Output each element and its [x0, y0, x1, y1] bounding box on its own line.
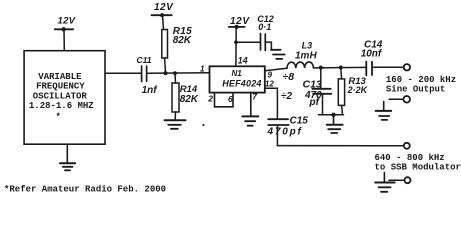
svg-text:12: 12 [265, 79, 274, 88]
wire C11 to pin 1 [148, 72, 210, 75]
svg-text:N1: N1 [232, 69, 243, 78]
capacitor C11 1nf [137, 55, 159, 96]
svg-text:to SSB Modulator: to SSB Modulator [375, 163, 461, 173]
svg-text:C15: C15 [290, 116, 309, 127]
svg-text:82K: 82K [180, 94, 199, 105]
ground (C13/R13) [327, 115, 343, 133]
ground (modulator output) [375, 173, 395, 192]
node output terminal (sine) [404, 64, 410, 70]
wire pin 7 to ground [250, 93, 252, 116]
svg-text:0·1: 0·1 [258, 22, 271, 32]
wire C13/R13 common [319, 114, 344, 116]
capacitor C15 470pf [267, 116, 309, 146]
VFO box U (variable frequency oscillator) [24, 51, 105, 145]
resistor R14 82K [172, 73, 199, 120]
wire 12V to VFO box [63, 29, 65, 50]
svg-text:L3: L3 [302, 41, 313, 51]
svg-text:12V: 12V [58, 15, 76, 26]
svg-text:160 - 200 kHz: 160 - 200 kHz [386, 75, 456, 85]
node C12 junction [234, 40, 238, 44]
svg-text:14: 14 [238, 56, 248, 66]
svg-text:470pf: 470pf [267, 127, 303, 138]
node ground terminal (modulator output) [389, 177, 411, 183]
svg-text:1nf: 1nf [142, 85, 159, 96]
resistor R15 82K [162, 15, 192, 73]
wire C15 to modulator output [277, 145, 403, 147]
svg-text:1.28-1.6 MHZ: 1.28-1.6 MHZ [29, 101, 94, 111]
svg-text:C11: C11 [137, 55, 152, 65]
node output terminal (modulator) [404, 143, 410, 149]
svg-text:2: 2 [207, 94, 213, 104]
stray mark [202, 124, 204, 126]
svg-text:12V: 12V [230, 16, 250, 27]
power terminal 12V (VFO supply) [55, 15, 76, 31]
ground (sine output) [376, 102, 392, 120]
svg-text:1mH: 1mH [295, 51, 317, 62]
svg-text:OSCILLATOR: OSCILLATOR [33, 91, 88, 101]
svg-text:HEF4024: HEF4024 [222, 79, 261, 89]
svg-text:*: * [56, 112, 61, 122]
svg-text:FREQUENCY: FREQUENCY [36, 82, 85, 92]
svg-text:Sine Output: Sine Output [386, 85, 445, 95]
svg-text:C13: C13 [303, 79, 322, 91]
svg-text:÷8: ÷8 [283, 71, 295, 83]
wire VFO to C11 [105, 72, 141, 74]
ground (below R14) [165, 120, 186, 129]
power terminal 12V (R15 top) [152, 2, 175, 17]
ground (C12) [271, 50, 285, 59]
inductor L3 1mH [287, 41, 317, 69]
capacitor C12 0.1 [236, 14, 274, 51]
node R14/wire junction [173, 71, 177, 75]
svg-text:÷2: ÷2 [281, 91, 292, 102]
wire C14 to output [373, 66, 404, 68]
node ground terminal (sine output) [389, 96, 410, 103]
svg-text:82K: 82K [173, 35, 192, 46]
svg-text:*Refer Amateur Radio Feb. 2000: *Refer Amateur Radio Feb. 2000 [4, 185, 166, 195]
svg-text:2·2K: 2·2K [347, 85, 369, 95]
capacitor C13 470pf [303, 68, 332, 115]
capacitor C14 10nf [361, 40, 383, 76]
wire pins 2-6 loop [215, 93, 234, 107]
svg-text:10nf: 10nf [361, 49, 383, 60]
wire pin 12 to C15 [265, 88, 278, 118]
wire L3 to C14 [313, 66, 365, 69]
svg-text:9: 9 [268, 70, 273, 79]
node R13 junction [339, 66, 343, 70]
svg-text:12V: 12V [154, 2, 174, 13]
resistor R13 2.2K [338, 68, 368, 115]
ground (below VFO) [60, 144, 75, 170]
ground (pin 7) [242, 116, 258, 125]
op-amp/IC N1 HEF4024 [210, 66, 265, 92]
svg-text:1: 1 [200, 65, 205, 74]
svg-text:pf: pf [309, 97, 321, 108]
wire 12V to pin 14 [235, 27, 237, 66]
node R15/wire junction [163, 71, 167, 75]
svg-text:VARIABLE: VARIABLE [38, 72, 82, 82]
node C13 junction [319, 66, 323, 70]
wire pin 9 to L3 [265, 68, 287, 71]
power terminal 12V (IC supply) [229, 16, 251, 29]
node ground junction [331, 113, 335, 117]
